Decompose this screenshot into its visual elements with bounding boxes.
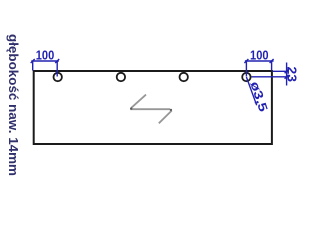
svg-text:23: 23 [285,67,300,83]
svg-text:100: 100 [250,49,269,63]
svg-text:głębokość naw. 14mm: głębokość naw. 14mm [6,34,21,176]
svg-text:100: 100 [36,49,55,63]
